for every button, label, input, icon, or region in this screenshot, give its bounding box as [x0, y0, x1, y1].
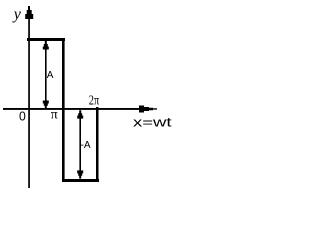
dimension arrowhead A top (up)	[43, 41, 49, 50]
dimension arrowhead -A top (up)	[77, 110, 83, 118]
svg-text:-A: -A	[81, 140, 91, 151]
svg-text:A: A	[47, 70, 54, 81]
dimension arrowhead -A bottom (down)	[77, 170, 83, 178]
svg-text:π: π	[51, 108, 58, 123]
svg-text:x=wt: x=wt	[133, 115, 172, 130]
y-axis	[28, 8, 30, 188]
x-axis arrowhead	[139, 106, 157, 113]
x-axis	[3, 108, 140, 110]
y-axis arrowhead	[25, 6, 33, 19]
svg-text:2π: 2π	[89, 94, 99, 109]
svg-text:0: 0	[19, 110, 26, 124]
waveform bottom segment -A from pi to 2pi	[62, 179, 99, 182]
svg-text:y: y	[12, 6, 22, 23]
dimension arrowhead A bottom (down)	[43, 101, 49, 109]
dimension line A	[45, 44, 47, 106]
dimension line -A	[79, 112, 81, 176]
waveform top segment +A from 0 to pi	[27, 38, 65, 41]
waveform falling edge at pi	[62, 38, 65, 182]
waveform rising edge at 2pi	[96, 107, 99, 182]
